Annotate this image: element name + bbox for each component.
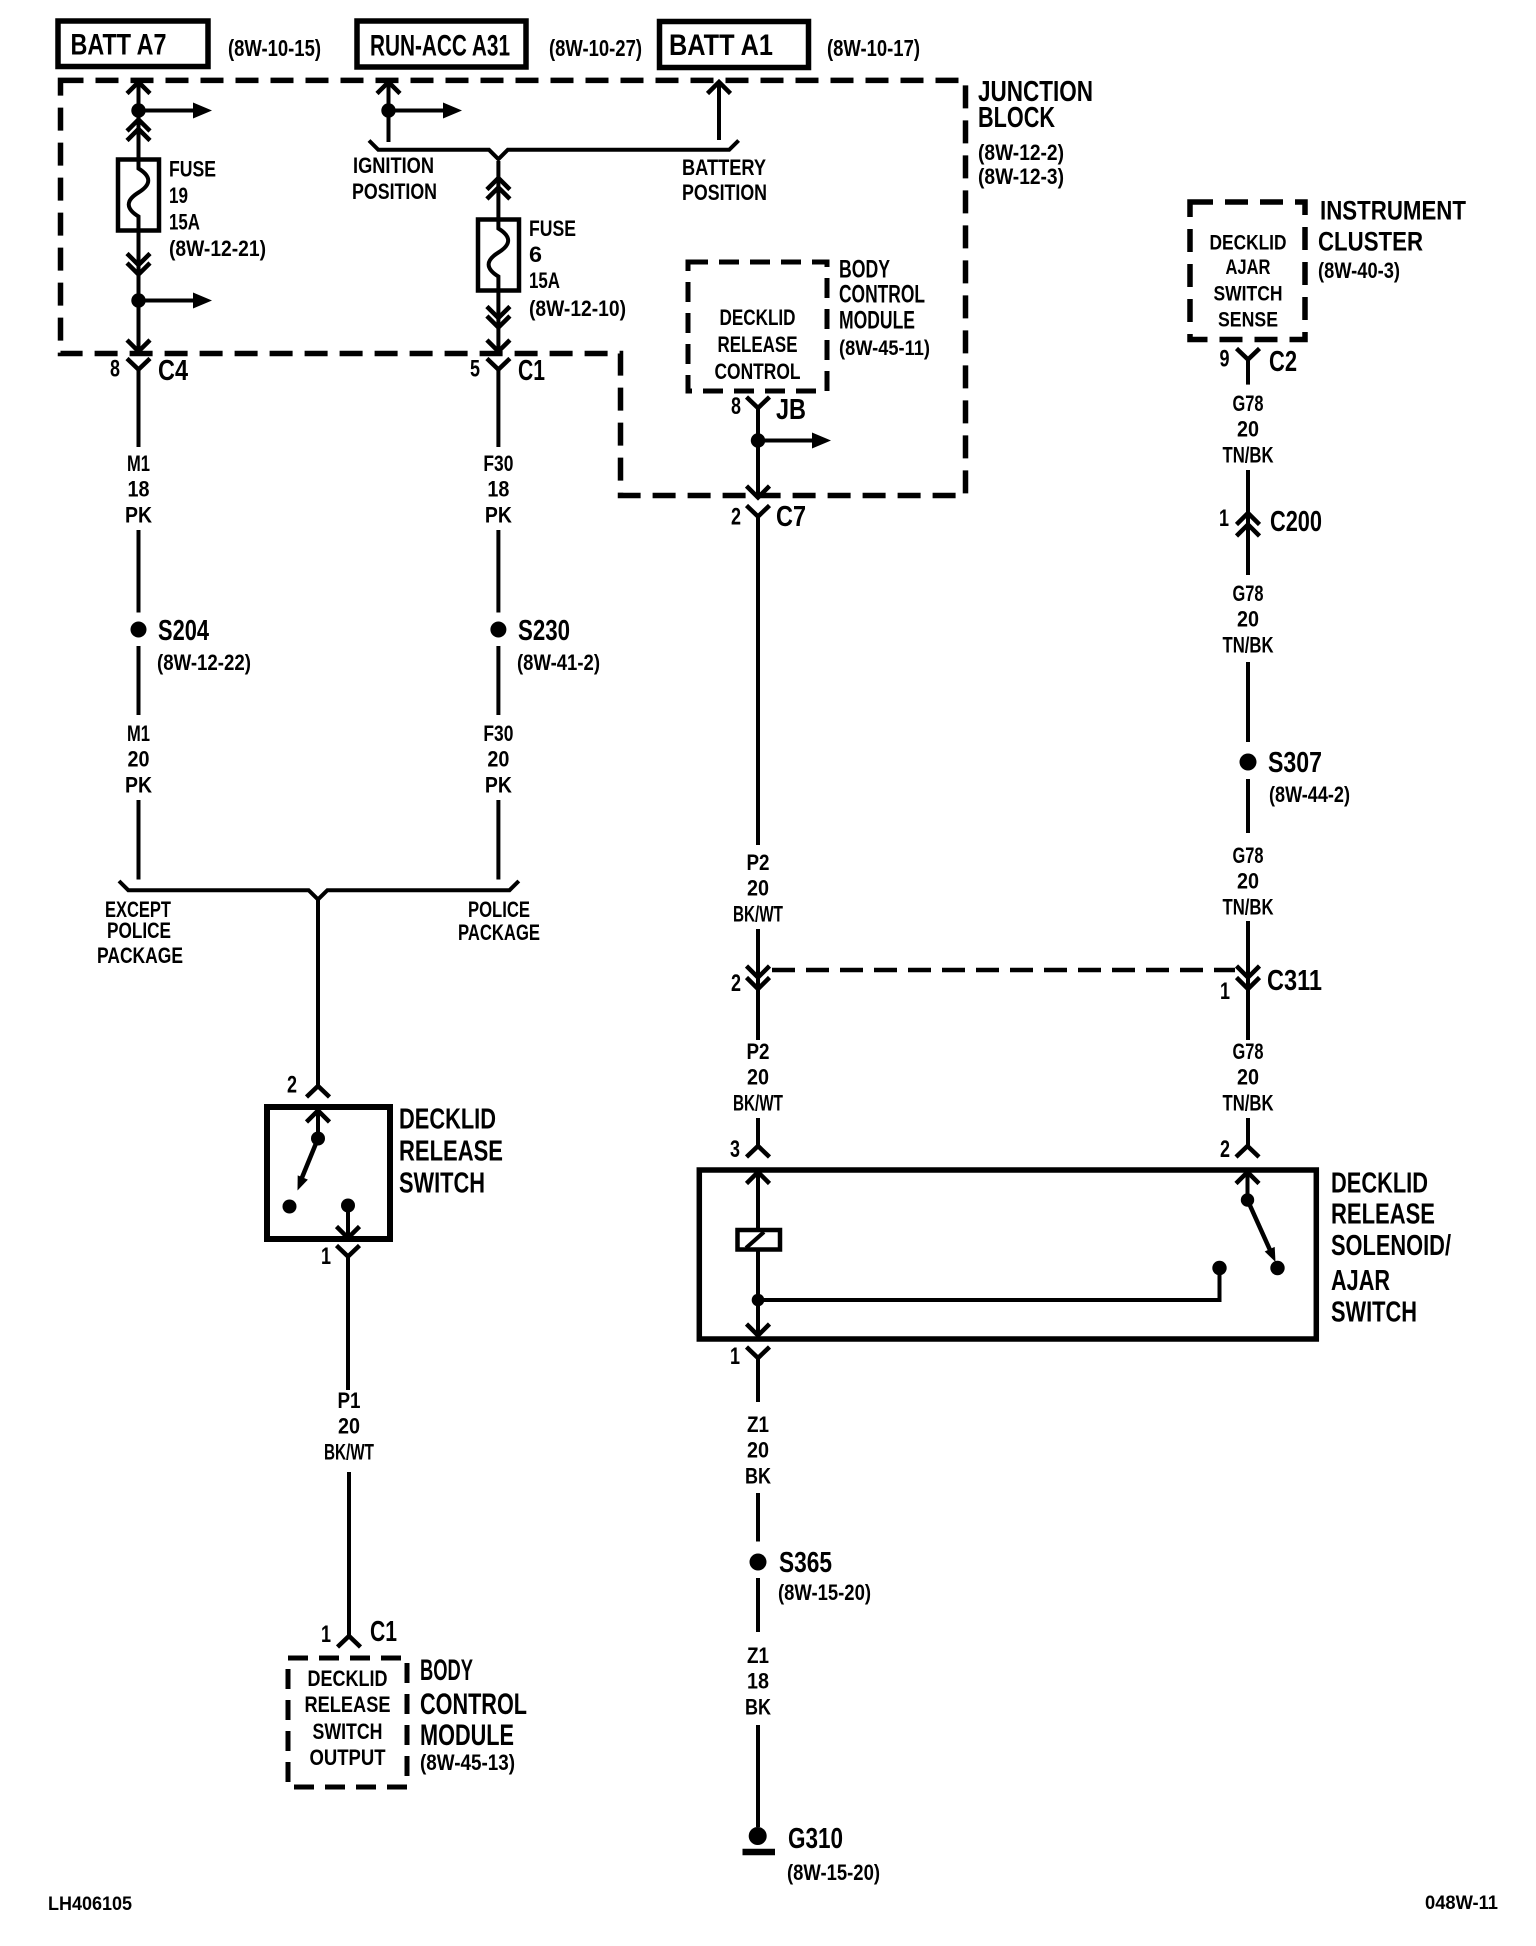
wire label P2 (lower) [747,1039,770,1064]
wire label BK/WT (P2 lower) [733,1090,783,1115]
wire brace to decklid release switch [316,899,320,1086]
wire Z1 18 BK to ground G310 [756,1725,760,1827]
junction block title JUNCTION [978,76,1093,108]
svg-text:BODY: BODY [839,256,890,284]
decklid release switch contact left [283,1200,297,1214]
component title DECKLID (switch) [399,1103,496,1135]
junction block dashed outline [61,80,966,495]
svg-text:(8W-12-2): (8W-12-2) [978,140,1064,165]
svg-text:SENSE: SENSE [1218,309,1278,332]
wire label Z1 (lower) [747,1643,769,1668]
splice S365 ref (8W-15-20) [778,1580,871,1605]
svg-text:C311: C311 [1267,965,1322,997]
splice name S307 [1268,747,1322,779]
ground G310 ref (8W-15-20) [787,1860,880,1885]
connector C1 pin arrow at junction block edge [487,340,510,352]
svg-text:(8W-15-20): (8W-15-20) [787,1860,880,1885]
junction node in junction block (ignition) [381,103,395,117]
connector name C2 [1269,346,1297,378]
svg-text:BATT A7: BATT A7 [71,29,167,62]
svg-text:TN/BK: TN/BK [1223,442,1274,467]
svg-text:BLOCK: BLOCK [978,102,1055,134]
wire label 20 (block 2) [1237,607,1259,632]
branch arrow to other circuits (col A lower) [145,293,212,309]
svg-text:6: 6 [529,242,542,267]
wire S307 to label G78 (block 3) [1246,779,1250,833]
BCM top ref (8W-45-11) [839,337,930,360]
wire S365 to label Z1 18 BK [756,1578,760,1632]
BCM internal label DECKLID (top) [720,305,796,330]
splice name S204 [158,615,209,647]
svg-text:(8W-44-2): (8W-44-2) [1269,782,1350,807]
svg-text:POSITION: POSITION [352,179,437,204]
svg-text:M1: M1 [127,451,150,476]
svg-text:LH406105: LH406105 [48,1894,132,1915]
svg-text:OUTPUT: OUTPUT [310,1745,386,1770]
splice S204 ref (8W-12-22) [157,650,251,675]
svg-text:18: 18 [487,477,509,502]
svg-text:RELEASE: RELEASE [718,332,798,357]
label IGNITION [353,153,434,178]
junction node below JB fork [751,433,765,447]
pin number 1 at BCM C1 [321,1621,331,1648]
svg-text:20: 20 [1237,607,1259,632]
wire label 20 (Z1) [747,1438,769,1463]
wire label 20 (block 4) [1237,1065,1259,1090]
pin number 3 at solenoid box [730,1136,740,1163]
fuse 19 label FUSE [169,157,216,182]
connector name C7 [776,501,806,533]
svg-text:POLICE: POLICE [107,918,171,943]
merge brace except-police/police package [119,881,519,899]
wire label M1 (col A) [127,451,150,476]
svg-text:P2: P2 [747,850,770,875]
svg-text:(8W-10-17): (8W-10-17) [827,35,920,61]
BCM internal label SWITCH [313,1719,383,1744]
svg-text:(8W-12-10): (8W-12-10) [529,296,626,321]
wire label TN/BK (block 1) [1223,442,1274,467]
svg-text:2: 2 [731,504,741,531]
svg-text:INSTRUMENT: INSTRUMENT [1320,195,1466,225]
svg-text:19: 19 [169,183,188,208]
junction node in junction block (col A) [131,103,145,117]
svg-text:PK: PK [485,502,512,527]
connector C7 pin arrow at junction block edge [747,486,770,498]
svg-text:S365: S365 [779,1547,832,1579]
label POSITION (ignition) [352,179,437,204]
svg-text:(8W-10-15): (8W-10-15) [228,35,321,61]
splice name S230 [518,615,570,647]
label POLICE (right) [468,897,530,922]
pin number 2 at C7 [731,504,741,531]
splice S230 ref (8W-41-2) [517,650,600,675]
wire switch contact to pin 1 [346,1206,350,1237]
splice S307 ref (8W-44-2) [1269,782,1350,807]
svg-text:2: 2 [731,970,741,997]
decklid release switch common node [311,1132,325,1146]
wire label BK/WT (P2 upper) [733,901,783,926]
svg-text:5: 5 [470,356,480,383]
IC internal label AJAR [1226,256,1271,279]
svg-text:POLICE: POLICE [468,897,530,922]
svg-text:P2: P2 [747,1039,770,1064]
label BATTERY [682,155,766,180]
wire label 18 (col A) [128,477,150,502]
connector fork pin 1 below solenoid box [747,1347,770,1358]
svg-text:BK/WT: BK/WT [733,901,783,926]
connector C200 chevrons [1237,513,1260,536]
reference label (8W-10-15) [228,35,321,61]
wire label P2 (upper) [747,850,770,875]
svg-text:G78: G78 [1233,1039,1264,1064]
IC ref (8W-40-3) [1318,258,1400,283]
svg-text:(8W-41-2): (8W-41-2) [517,650,600,675]
wire label F30 (col B lower) [483,721,513,746]
svg-text:RELEASE: RELEASE [1331,1199,1435,1231]
svg-text:G78: G78 [1233,843,1264,868]
connector name JB [776,394,806,426]
svg-text:PK: PK [125,772,152,797]
svg-text:Z1: Z1 [747,1412,769,1437]
connector C311 dashed link line [772,968,1235,973]
wire label 20 (block 3) [1237,869,1259,894]
svg-text:DECKLID: DECKLID [308,1666,388,1691]
junction node in junction block (col A lower) [131,293,145,307]
wire G78 to connector C200 [1246,470,1250,575]
svg-text:TN/BK: TN/BK [1223,632,1274,657]
svg-text:JB: JB [776,394,806,426]
svg-text:20: 20 [1237,417,1259,442]
pin number 2 at decklid release switch [287,1072,297,1099]
component title BODY (BCM bottom) [420,1654,473,1687]
svg-text:CONTROL: CONTROL [839,281,925,309]
svg-text:CLUSTER: CLUSTER [1318,227,1423,257]
pin number 1 below solenoid box [730,1343,740,1370]
svg-text:TN/BK: TN/BK [1223,1090,1274,1115]
svg-text:DECKLID: DECKLID [1331,1167,1428,1199]
wire junction to ajar switch contact [758,1275,1220,1302]
junction block ref (8W-12-2) [978,140,1064,165]
BCM internal label DECKLID [308,1666,388,1691]
connector C1 fork (junction block) [487,359,510,370]
svg-text:(8W-15-20): (8W-15-20) [778,1580,871,1605]
svg-text:2: 2 [1220,1136,1230,1163]
wire label 20 (P2 upper) [747,876,769,901]
wire label G78 (block 3) [1233,843,1264,868]
svg-text:SWITCH: SWITCH [1331,1296,1417,1328]
svg-text:1: 1 [1219,505,1229,532]
wire label G78 (block 4) [1233,1039,1264,1064]
svg-text:C7: C7 [776,501,806,533]
wire label TN/BK (block 4) [1223,1090,1274,1115]
svg-text:POSITION: POSITION [682,180,767,205]
fuse 19 label 19 [169,183,188,208]
svg-text:TN/BK: TN/BK [1223,894,1274,919]
svg-text:C2: C2 [1269,346,1297,378]
fuse 6 15A [478,220,519,291]
IC internal label SWITCH [1214,282,1283,305]
svg-text:1: 1 [321,1243,331,1270]
svg-text:20: 20 [128,747,150,772]
svg-text:BODY: BODY [420,1654,473,1687]
svg-text:PACKAGE: PACKAGE [458,920,540,945]
fuse 6 label 15A [529,268,560,293]
wire JB fork to C7 [756,408,760,497]
inline connector chevrons above fuse 19 [127,120,150,141]
svg-text:F30: F30 [483,721,513,746]
svg-text:FUSE: FUSE [529,216,576,241]
label POLICE (left) [107,918,171,943]
svg-text:18: 18 [747,1669,769,1694]
BCM internal label RELEASE (top) [718,332,798,357]
connector C4 fork [127,359,150,370]
connector name C4 [158,355,188,387]
inline connector chevrons below fuse 19 [127,254,150,275]
pin number 8 at JB connector [731,393,741,420]
ajar switch blade with arrow [1248,1200,1276,1262]
inline connector chevrons above fuse 6 [487,178,510,199]
connector name C1 (junction block) [518,355,545,387]
fuse 19 15A [118,160,159,232]
wire S230 to label F30 20 PK [496,646,500,715]
wire label 20 (P2 lower) [747,1065,769,1090]
wire label PK (col B lower) [485,772,512,797]
wire solenoid to junction node [756,1250,760,1303]
ground G310 symbol [743,1827,776,1852]
pin number 1 at C200 [1219,505,1229,532]
svg-text:S230: S230 [518,615,570,647]
wire Z1 to splice S365 [756,1493,760,1542]
svg-text:BATTERY: BATTERY [682,155,766,180]
svg-text:(8W-12-21): (8W-12-21) [169,236,266,261]
component title INSTRUMENT [1320,195,1466,225]
wire C4 to label M1 18 PK [137,370,141,448]
IC internal label SENSE [1218,309,1278,332]
svg-text:C200: C200 [1270,506,1322,538]
decklid release solenoid/ajar switch box [699,1170,1316,1339]
decklid release switch box [267,1107,390,1239]
wire solenoid pin 1 to label Z1 20 BK [756,1358,760,1402]
wire G78 to connector C311 [1246,921,1250,1040]
BCM internal label CONTROL (top) [715,359,801,384]
fuse 19 ref (8W-12-21) [169,236,266,261]
solenoid box pin 2 chevron [1236,1172,1259,1195]
wire fuse 6 to connector C1 [496,291,500,352]
svg-text:AJAR: AJAR [1226,256,1271,279]
wire TN/BK to solenoid box pin 2 [1246,1118,1250,1146]
svg-text:1: 1 [321,1621,331,1648]
svg-text:2: 2 [287,1072,297,1099]
connector fork pin 1 below switch [337,1246,360,1257]
pin number 2 at inline connector [731,970,741,997]
component title CLUSTER [1318,227,1423,257]
svg-text:BK: BK [745,1694,771,1719]
instrument cluster dashed box [1190,202,1305,340]
BCM internal label RELEASE [305,1692,391,1717]
wire label F30 (col B) [483,451,513,476]
wire label BK/WT (P1) [324,1439,374,1464]
page code 048W-11 [1425,1893,1498,1914]
wire BATT A7 to fuse 19 with terminal arrow [127,82,150,160]
fuse 19 label 15A [169,210,200,235]
ajar switch contact node (right) [1270,1261,1284,1275]
svg-text:PK: PK [485,772,512,797]
svg-text:G78: G78 [1233,391,1264,416]
svg-text:20: 20 [487,747,509,772]
label PACKAGE (left) [97,943,183,968]
wire label PK (col A lower) [125,772,152,797]
svg-text:15A: 15A [169,210,200,235]
junction block title BLOCK [978,102,1055,134]
component title RELEASE (switch) [399,1135,503,1167]
wire C7 to label P2 20 BK/WT [756,517,760,846]
solenoid pin 3 chevron [747,1172,770,1230]
svg-text:20: 20 [747,1065,769,1090]
splice S307 [1240,754,1257,771]
svg-text:CONTROL: CONTROL [420,1688,527,1721]
wire label TN/BK (block 2) [1223,632,1274,657]
wire label 18 (col B) [487,477,509,502]
reference label (8W-10-17) [827,35,920,61]
label PACKAGE (right) [458,920,540,945]
svg-text:20: 20 [747,876,769,901]
svg-text:9: 9 [1220,346,1230,373]
wire label PK (col B) [485,502,512,527]
inline connector chevrons (P2, pin 2) [747,966,770,989]
decklid release solenoid coil [738,1230,781,1250]
wire label G78 (block 2) [1233,581,1264,606]
svg-text:C1: C1 [518,355,545,387]
svg-text:P1: P1 [338,1388,361,1413]
pin number 1 below switch [321,1243,331,1270]
splice S230 [490,622,506,638]
wire P2 to decklid release solenoid pin 3 [756,1118,760,1146]
svg-text:BK/WT: BK/WT [324,1439,374,1464]
ajar switch common node [1241,1193,1254,1206]
wire label BK (Z1 upper) [745,1463,771,1488]
svg-text:PACKAGE: PACKAGE [97,943,183,968]
solenoid box pin 1 chevron [747,1324,770,1336]
wire P1 to body control module C1 [347,1472,351,1636]
svg-text:RUN-ACC A31: RUN-ACC A31 [370,30,510,63]
decklid release switch blade with arrow [298,1139,319,1191]
BCM internal label OUTPUT [310,1745,386,1770]
pin number 9 at C2 [1220,346,1230,373]
wire F30 20 PK to merge brace [496,800,500,880]
svg-text:MODULE: MODULE [839,307,915,335]
pin number 2 at solenoid box [1220,1136,1230,1163]
component title BODY (BCM top) [839,256,890,284]
svg-text:8: 8 [110,356,120,383]
svg-text:MODULE: MODULE [420,1719,514,1752]
connector C4 pin arrow at junction block edge [127,340,150,352]
junction node inside solenoid box [752,1294,765,1307]
component title CONTROL (BCM bottom) [420,1688,527,1721]
svg-text:20: 20 [747,1438,769,1463]
connector C7 fork [747,506,770,517]
pin number 5 at C1 [470,356,480,383]
power feed terminal box BATT A7 [58,21,208,67]
svg-text:SWITCH: SWITCH [313,1719,383,1744]
wire F30 18 PK to splice S230 [496,530,500,613]
wire label G78 (block 1) [1233,391,1264,416]
svg-text:048W-11: 048W-11 [1425,1893,1498,1914]
fuse 6 ref (8W-12-10) [529,296,626,321]
decklid release switch contact right [341,1199,355,1213]
svg-text:G78: G78 [1233,581,1264,606]
wire label 20 (block 1) [1237,417,1259,442]
svg-text:(8W-45-11): (8W-45-11) [839,337,930,360]
wire solenoid junction to pin 1 [756,1300,760,1337]
component title AJAR (solenoid) [1331,1265,1390,1297]
svg-text:C1: C1 [370,1616,397,1648]
svg-text:RELEASE: RELEASE [399,1135,503,1167]
svg-text:1: 1 [1220,978,1230,1005]
page code LH406105 [48,1894,132,1915]
junction block ref (8W-12-3) [978,164,1064,189]
wire G78 to splice S307 [1246,662,1250,742]
wire label PK (col A) [125,502,152,527]
svg-text:CONTROL: CONTROL [715,359,801,384]
wire BATT A1 to brace with terminal arrow [708,82,731,140]
component title SWITCH (switch) [399,1167,485,1199]
svg-text:SOLENOID/: SOLENOID/ [1331,1230,1451,1262]
branch arrow to other circuits (ignition) [395,103,462,119]
fuse 6 label FUSE [529,216,576,241]
wire label 20 (col A lower) [128,747,150,772]
merge brace ignition/battery position [369,141,739,160]
pin number 8 at C4 [110,356,120,383]
BCM decklid release control dashed box [688,262,827,391]
label POSITION (battery) [682,180,767,205]
decklid release switch pin 2 chevron [307,1111,330,1134]
wire fuse 19 to connector C4 [137,231,141,351]
svg-text:(8W-40-3): (8W-40-3) [1318,258,1400,283]
svg-text:G310: G310 [788,1823,843,1855]
reference label (8W-10-27) [549,35,642,61]
svg-text:F30: F30 [483,451,513,476]
power feed terminal box BATT A1 [660,22,809,68]
component title MODULE (BCM top) [839,307,915,335]
wire C1 to label F30 18 PK [496,370,500,448]
wire label TN/BK (block 3) [1223,894,1274,919]
branch arrow to other circuits (col A upper) [145,103,212,119]
wire label M1 (col A lower) [127,721,150,746]
svg-text:IGNITION: IGNITION [353,153,434,178]
svg-text:SWITCH: SWITCH [399,1167,485,1199]
splice S204 [131,622,147,638]
component title CONTROL (BCM top) [839,281,925,309]
svg-text:18: 18 [128,477,150,502]
power feed terminal box RUN-ACC A31 [357,21,526,67]
ground name G310 [788,1823,843,1855]
wire label BK (Z1 lower) [745,1694,771,1719]
connector C311 chevrons [1237,966,1260,989]
component title SOLENOID/ (solenoid) [1331,1230,1451,1262]
component title SWITCH (solenoid) [1331,1296,1417,1328]
svg-text:20: 20 [1237,1065,1259,1090]
svg-text:8: 8 [731,393,741,420]
connector fork pin 2 decklid release switch [307,1086,330,1097]
connector C1 fork at BCM [338,1636,361,1647]
wire label 20 (P1) [338,1414,360,1439]
wire label 20 (col B lower) [487,747,509,772]
svg-text:20: 20 [338,1414,360,1439]
svg-text:S307: S307 [1268,747,1322,779]
svg-text:(8W-10-27): (8W-10-27) [549,35,642,61]
wire label Z1 (upper) [747,1412,769,1437]
label EXCEPT [105,897,171,922]
